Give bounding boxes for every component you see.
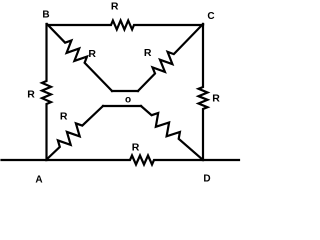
svg-text:R: R [132, 142, 140, 154]
svg-text:R: R [60, 111, 68, 123]
svg-text:D: D [203, 174, 210, 185]
svg-text:C: C [207, 11, 214, 22]
svg-text:R: R [27, 89, 35, 101]
resistor R diagonal C-O [138, 24, 203, 91]
wire lower bus at node O [103, 105, 141, 107]
svg-text:R: R [111, 0, 119, 12]
svg-text:A: A [35, 175, 42, 186]
resistor R diagonal B-O [47, 24, 112, 91]
wire upper bus at node O [112, 90, 138, 92]
resistor R right (C-D) [199, 24, 208, 160]
svg-text:R: R [144, 47, 152, 59]
resistor diagonal O-D [141, 106, 203, 160]
svg-text:o: o [125, 95, 131, 106]
svg-text:R: R [88, 48, 96, 60]
resistor R bottom (A-D) [2, 156, 240, 165]
resistor R top (B-C) [47, 21, 203, 30]
svg-text:B: B [42, 10, 49, 21]
resistor R diagonal A-O [46, 106, 103, 160]
resistor R left (B-A) [42, 24, 51, 160]
svg-text:R: R [212, 93, 220, 105]
